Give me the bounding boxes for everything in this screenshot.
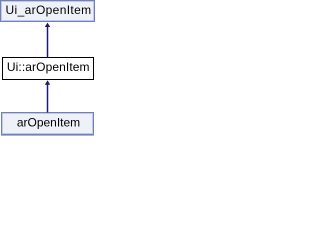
wire arrow Ui::arOpenItem -> Ui_arOpenItem (45, 23, 50, 58)
node arOpenItem (derived class box) (1, 112, 94, 135)
node Ui::arOpenItem (current class box) (2, 57, 94, 80)
inheritance arrows (0, 0, 95, 136)
wire arrow arOpenItem -> Ui::arOpenItem (45, 80, 50, 112)
node Ui_arOpenItem (base class box) (0, 0, 95, 22)
